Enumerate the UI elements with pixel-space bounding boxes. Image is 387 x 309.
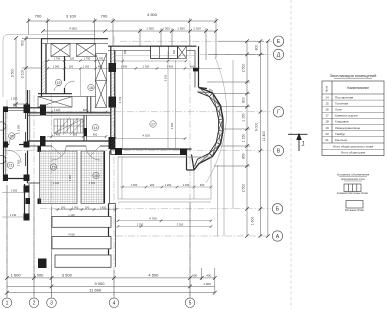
svg-text:4 000: 4 000 xyxy=(69,27,77,31)
svg-text:Б: Б xyxy=(276,207,280,213)
svg-text:700: 700 xyxy=(101,14,108,19)
svg-text:1 450: 1 450 xyxy=(121,64,128,68)
svg-text:1 000: 1 000 xyxy=(203,282,211,286)
svg-text:4 500: 4 500 xyxy=(148,272,159,277)
svg-text:Бетонные блоки: Бетонные блоки xyxy=(345,209,364,212)
svg-text:2 100: 2 100 xyxy=(54,108,61,112)
svg-text:Постирочная: Постирочная xyxy=(335,95,354,99)
svg-text:Тамбур: Тамбур xyxy=(335,132,346,136)
svg-text:800: 800 xyxy=(242,97,246,103)
svg-text:3 100: 3 100 xyxy=(66,14,77,19)
svg-text:15: 15 xyxy=(325,101,329,105)
svg-text:1 150: 1 150 xyxy=(242,113,246,122)
svg-text:3 100: 3 100 xyxy=(164,74,168,81)
svg-text:16: 16 xyxy=(325,108,329,112)
svg-text:16: 16 xyxy=(94,174,98,178)
svg-text:200: 200 xyxy=(70,57,75,61)
svg-text:900: 900 xyxy=(13,104,18,108)
svg-text:2 260: 2 260 xyxy=(17,124,21,131)
svg-text:Экспликация помещений: Экспликация помещений xyxy=(330,73,377,78)
svg-text:400: 400 xyxy=(206,273,211,277)
svg-text:200: 200 xyxy=(150,183,155,187)
svg-text:Итого общая цокольного этажа: Итого общая цокольного этажа xyxy=(333,144,374,148)
svg-text:1 600: 1 600 xyxy=(251,217,255,226)
svg-text:21: 21 xyxy=(9,164,13,168)
svg-text:200: 200 xyxy=(85,206,90,210)
svg-text:1 000: 1 000 xyxy=(33,272,44,277)
svg-text:Кладовая: Кладовая xyxy=(335,120,349,124)
svg-text:17: 17 xyxy=(151,122,155,126)
svg-text:14: 14 xyxy=(325,95,329,99)
svg-text:20: 20 xyxy=(325,132,329,136)
svg-text:1 000: 1 000 xyxy=(72,206,79,210)
svg-text:640: 640 xyxy=(200,183,205,187)
svg-text:Крыльцо: Крыльцо xyxy=(335,138,348,142)
svg-text:1 450: 1 450 xyxy=(183,183,190,187)
svg-text:материалов стен: материалов стен xyxy=(341,177,365,181)
svg-text:19: 19 xyxy=(57,81,61,85)
svg-text:№ пп: № пп xyxy=(325,85,328,92)
svg-text:1 200: 1 200 xyxy=(11,97,18,101)
svg-text:19: 19 xyxy=(325,126,329,130)
svg-text:3 100: 3 100 xyxy=(21,70,25,79)
svg-text:14: 14 xyxy=(94,126,98,130)
svg-text:500: 500 xyxy=(21,40,25,46)
svg-text:4 700: 4 700 xyxy=(149,217,157,221)
svg-text:Г: Г xyxy=(277,110,280,116)
svg-text:Наименование: Наименование xyxy=(347,86,369,90)
svg-text:800: 800 xyxy=(124,49,127,54)
svg-text:600: 600 xyxy=(192,273,197,277)
svg-text:1 300: 1 300 xyxy=(162,27,170,31)
svg-text:2 500: 2 500 xyxy=(242,64,246,73)
svg-text:4 500: 4 500 xyxy=(147,12,158,17)
svg-text:700: 700 xyxy=(35,14,42,19)
svg-text:2 300: 2 300 xyxy=(177,223,184,227)
svg-text:200: 200 xyxy=(61,206,66,210)
svg-text:Д: Д xyxy=(277,52,281,58)
svg-text:1 060: 1 060 xyxy=(53,64,60,68)
svg-text:1 450: 1 450 xyxy=(100,206,107,210)
svg-text:790: 790 xyxy=(99,57,104,61)
svg-text:1 300: 1 300 xyxy=(143,64,150,68)
svg-text:850: 850 xyxy=(242,153,246,159)
svg-text:5: 5 xyxy=(189,301,192,307)
svg-text:9 000: 9 000 xyxy=(94,281,105,286)
svg-text:Комната отдыха: Комната отдыха xyxy=(335,114,358,118)
svg-text:А: А xyxy=(276,234,280,240)
svg-text:600: 600 xyxy=(93,133,98,137)
svg-text:1 200: 1 200 xyxy=(137,223,144,227)
svg-text:9 000: 9 000 xyxy=(255,123,259,132)
svg-text:11 400: 11 400 xyxy=(262,131,266,141)
svg-text:Керамзитобетонные блоки: Керамзитобетонные блоки xyxy=(337,192,369,195)
svg-text:3 700: 3 700 xyxy=(118,96,122,103)
svg-text:Итого общая дома: Итого общая дома xyxy=(341,151,366,155)
svg-text:1: 1 xyxy=(6,301,9,307)
svg-text:11 600: 11 600 xyxy=(89,287,102,292)
svg-text:1 600: 1 600 xyxy=(11,272,22,277)
svg-text:3 500: 3 500 xyxy=(62,272,73,277)
svg-text:2 000: 2 000 xyxy=(17,159,21,166)
svg-text:2 000: 2 000 xyxy=(170,122,174,129)
svg-text:В: В xyxy=(277,149,281,155)
svg-text:1 760: 1 760 xyxy=(54,57,61,61)
svg-text:1 750: 1 750 xyxy=(84,57,91,61)
svg-text:1 130: 1 130 xyxy=(10,213,17,217)
svg-text:2 100: 2 100 xyxy=(193,27,201,31)
svg-text:18: 18 xyxy=(325,120,329,124)
svg-text:800: 800 xyxy=(173,49,176,54)
svg-text:18: 18 xyxy=(89,86,93,90)
svg-text:Топочная: Топочная xyxy=(335,101,348,105)
svg-text:1 300: 1 300 xyxy=(146,27,154,31)
svg-text:1 500: 1 500 xyxy=(177,27,185,31)
svg-text:1 500: 1 500 xyxy=(11,189,18,193)
svg-text:1: 1 xyxy=(302,142,305,148)
svg-text:1 150: 1 150 xyxy=(242,134,246,143)
svg-text:800: 800 xyxy=(255,45,259,51)
svg-text:4 600: 4 600 xyxy=(68,233,75,237)
svg-text:1 260: 1 260 xyxy=(165,183,172,187)
svg-text:17: 17 xyxy=(325,114,329,118)
svg-text:2: 2 xyxy=(33,301,36,307)
svg-text:21: 21 xyxy=(325,138,329,142)
svg-text:Холл: Холл xyxy=(335,108,342,112)
svg-text:3: 3 xyxy=(50,301,53,307)
svg-text:15: 15 xyxy=(52,165,56,169)
svg-text:3 500: 3 500 xyxy=(11,69,15,78)
svg-text:4: 4 xyxy=(113,301,116,307)
svg-text:1 160: 1 160 xyxy=(83,64,90,68)
svg-text:Условные обозначения: Условные обозначения xyxy=(337,173,370,177)
svg-text:20: 20 xyxy=(10,134,14,138)
svg-text:200: 200 xyxy=(69,64,74,68)
svg-text:Овощехранилище: Овощехранилище xyxy=(335,126,361,130)
svg-text:2 500: 2 500 xyxy=(242,184,246,193)
svg-text:1 450: 1 450 xyxy=(131,183,138,187)
svg-text:4 100: 4 100 xyxy=(142,134,150,138)
svg-text:Е: Е xyxy=(277,39,281,45)
